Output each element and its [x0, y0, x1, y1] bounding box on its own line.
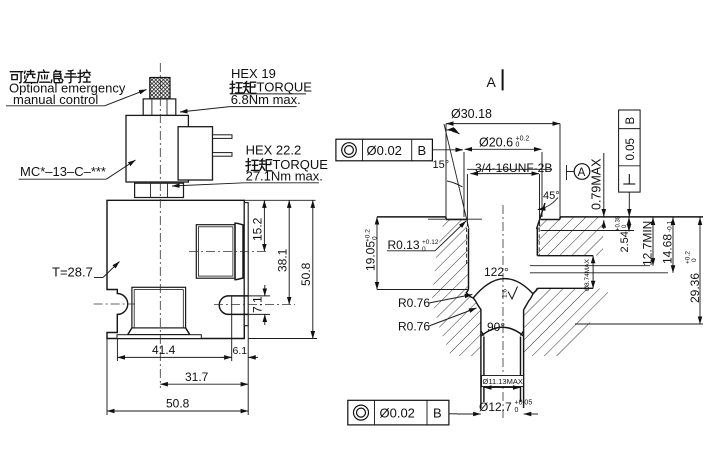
lower-left port plug [117, 287, 201, 338]
dimension 50.8 vertical [248, 200, 317, 338]
section mark A [487, 69, 503, 90]
label R0.76 lower [398, 308, 477, 334]
upper port centerline [189, 250, 268, 252]
svg-text:50.8: 50.8 [166, 397, 190, 411]
centerline vertical solenoid axis [159, 63, 161, 388]
feature control frame concentricity bottom [348, 400, 457, 425]
stadium port centerline [214, 303, 295, 305]
thread bore left wall [468, 229, 470, 290]
svg-text:B: B [433, 405, 442, 420]
svg-text:+0.05: +0.05 [515, 400, 533, 407]
hex stem HEX19 [143, 99, 176, 116]
right wall bump below port [533, 288, 537, 294]
svg-text:Ø0.02: Ø0.02 [380, 405, 415, 420]
dimension 15.2 [251, 200, 265, 251]
dimension 19.05 [364, 217, 469, 290]
centerline cavity axis [502, 205, 504, 420]
port notch top [537, 255, 593, 257]
inner bore wall right [520, 337, 522, 403]
ext line dia30.18 right [559, 124, 561, 217]
90 deg cone arc [481, 327, 524, 336]
svg-text:A: A [487, 74, 497, 90]
dimension 29.36 [685, 218, 703, 325]
svg-text:T=28.7: T=28.7 [52, 265, 93, 280]
inner bore wall left [483, 337, 485, 403]
dimension 6.1 [222, 345, 258, 357]
hex nut HEX22.2 [135, 183, 184, 197]
leader T [94, 277, 103, 279]
svg-text:0.05: 0.05 [625, 138, 637, 160]
ext line top right [244, 199, 315, 201]
svg-text:R0.76: R0.76 [398, 320, 430, 334]
datum target A circle [567, 164, 590, 180]
svg-text:Ø11.13MAX: Ø11.13MAX [483, 377, 523, 386]
svg-text:HEX 22.2: HEX 22.2 [246, 143, 302, 158]
svg-text:0: 0 [372, 236, 379, 240]
svg-text:0: 0 [515, 407, 519, 414]
thread dashed left [466, 228, 468, 266]
svg-text:Ø20.6: Ø20.6 [479, 136, 513, 150]
svg-text:41.4: 41.4 [152, 343, 176, 357]
ext lines right stack [541, 230, 634, 232]
svg-text:manual control: manual control [13, 92, 98, 107]
dimension dia8.74MAX [584, 256, 593, 291]
svg-text:6.8Nm max.: 6.8Nm max. [231, 92, 301, 107]
svg-text:0: 0 [422, 246, 426, 253]
coil body [126, 115, 188, 182]
svg-text:3/4-16UNF-2B: 3/4-16UNF-2B [475, 161, 552, 175]
leader MC [106, 160, 135, 179]
leader manual control [6, 105, 105, 107]
knurl knob (manual override) [150, 78, 170, 99]
svg-text:B: B [625, 117, 637, 125]
svg-text:31.7: 31.7 [185, 370, 209, 384]
label optional emergency manual control (CJK row) [10, 70, 90, 83]
dimension 12.7MIN [641, 218, 655, 267]
hatch left block [432, 220, 481, 356]
svg-text:0.79MAX: 0.79MAX [590, 158, 604, 210]
svg-text:29.36: 29.36 [688, 273, 702, 303]
svg-text:B: B [418, 143, 427, 158]
dome arc 122 deg [473, 279, 533, 298]
connector pin 1 [213, 135, 233, 139]
top surface right [560, 216, 703, 218]
hatch right lower block [524, 289, 608, 357]
svg-text:50.8: 50.8 [299, 262, 313, 286]
dimension dia11.13MAX [482, 376, 524, 388]
thread dashed right [538, 228, 540, 256]
label R0.76 upper [398, 295, 472, 311]
corner chamfer right [520, 331, 523, 336]
corner chamfer left [481, 331, 484, 336]
dimension 14.68 [661, 218, 675, 273]
converge to small bore left [473, 298, 481, 310]
valve body block [107, 200, 244, 338]
svg-text:12.7MIN: 12.7MIN [641, 221, 655, 266]
upper port hex plug [196, 223, 243, 279]
dimension dia12.7 bottom [457, 400, 538, 415]
svg-text:R0.76: R0.76 [398, 296, 430, 310]
svg-text:38.1: 38.1 [276, 248, 290, 272]
svg-text:MC*–13–C–***: MC*–13–C–*** [20, 164, 106, 179]
svg-text:7.1: 7.1 [251, 296, 265, 313]
dimension 0.79MAX [590, 153, 604, 229]
spotface bottom right [541, 219, 560, 221]
bore bottom left corner R0.76 bump [466, 290, 473, 299]
thread bore right wall [536, 228, 538, 256]
dimension 38.1 [276, 200, 290, 304]
spotface edge left [445, 217, 447, 220]
label R0.13 [387, 221, 466, 253]
dimension 41.4 [117, 343, 231, 357]
svg-text:27.1Nm max.: 27.1Nm max. [246, 169, 323, 184]
connector block [178, 127, 212, 180]
feature control frame perp 0.05 B [619, 110, 641, 217]
spotface edge right [559, 217, 561, 220]
chamfer right 45 deg [537, 203, 546, 229]
svg-text:19.05: 19.05 [364, 241, 378, 271]
svg-text:14.68: 14.68 [661, 234, 675, 264]
port notch bottom [537, 287, 593, 289]
stadium side port right [219, 296, 248, 315]
svg-text:-0.1: -0.1 [667, 220, 674, 232]
svg-text:45°: 45° [543, 190, 560, 202]
side mounting plate right [244, 203, 248, 326]
left port centerline [94, 303, 135, 305]
svg-text:R0.13: R0.13 [388, 238, 420, 252]
dimension dia20.6 [464, 136, 542, 218]
svg-text:15°: 15° [433, 159, 450, 171]
connector pin 2 [213, 153, 233, 157]
feature control frame concentricity top [336, 139, 463, 161]
top surface left [377, 216, 446, 218]
dimension 15 deg [433, 130, 463, 187]
svg-text:1.6: 1.6 [502, 289, 509, 298]
svg-text:+0.2: +0.2 [365, 229, 372, 242]
spotface depth extension line [428, 218, 482, 220]
converge to small bore right [524, 294, 533, 310]
dimension dia30.18 [446, 107, 560, 124]
svg-text:2.54: 2.54 [619, 231, 631, 252]
svg-text:A: A [578, 167, 586, 179]
svg-text:Ø8.74MAX: Ø8.74MAX [584, 259, 591, 291]
chamfer 15 deg line extended [444, 124, 469, 229]
hatch right upper block [538, 217, 604, 255]
svg-text:Ø0.02: Ø0.02 [367, 143, 402, 158]
svg-text:+0.38: +0.38 [616, 215, 622, 231]
ext line dia30.18 left [445, 124, 447, 217]
svg-text:Ø30.18: Ø30.18 [451, 107, 492, 121]
label HEX 19 torque [180, 66, 312, 112]
surface finish mark 1.6 [502, 287, 518, 300]
dimension 7.1 [248, 285, 270, 325]
small bore wall right [523, 310, 525, 409]
svg-text:122°: 122° [484, 265, 509, 279]
dimension 31.7 [160, 370, 248, 384]
svg-text:90°: 90° [487, 320, 505, 334]
ext lines bottom [116, 339, 118, 362]
spotface bottom left [446, 219, 467, 221]
dimension 2.54 [616, 215, 632, 252]
thread callout 3/4-16UNF-2B [467, 161, 552, 226]
label HEX 22.2 torque [172, 143, 328, 187]
dimension 50.8 bottom [107, 397, 248, 412]
small bore wall left [480, 310, 482, 409]
svg-text:0: 0 [691, 258, 698, 262]
svg-text:15.2: 15.2 [251, 217, 265, 241]
dimension 45 deg [538, 190, 560, 210]
svg-text:+0.12: +0.12 [422, 239, 439, 246]
svg-text:0: 0 [516, 142, 520, 149]
svg-text:6.1: 6.1 [233, 345, 248, 357]
svg-text:Ø12.7: Ø12.7 [479, 400, 512, 414]
